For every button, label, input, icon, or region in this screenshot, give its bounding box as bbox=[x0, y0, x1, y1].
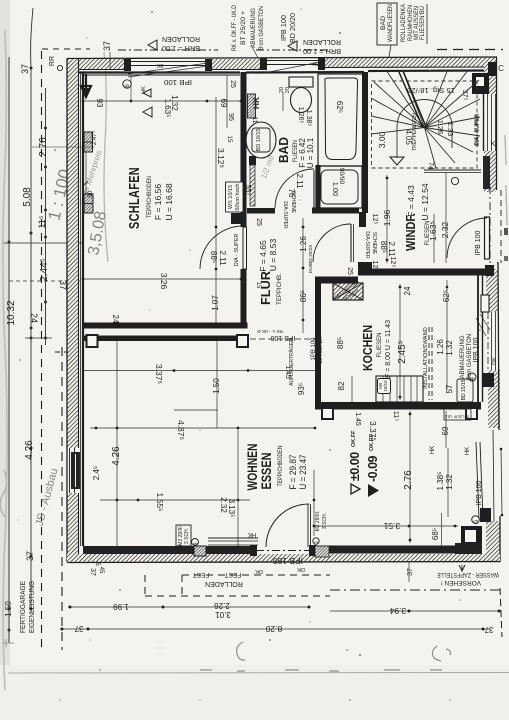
garage dashed top edge bbox=[42, 48, 90, 50]
top wall hatched band bbox=[67, 59, 126, 69]
wohnen window in left wall bbox=[69, 448, 71, 493]
svg-text:DK: DK bbox=[492, 357, 498, 365]
svg-text:F = 29.87: F = 29.87 bbox=[288, 455, 298, 490]
svg-text:5.08: 5.08 bbox=[22, 187, 33, 207]
svg-text:3.51: 3.51 bbox=[383, 521, 400, 531]
entrance door leaf bbox=[485, 217, 490, 259]
svg-text:2.32: 2.32 bbox=[440, 221, 450, 238]
wc bowl bbox=[291, 88, 312, 113]
svg-text:U = 16.68: U = 16.68 bbox=[164, 183, 174, 220]
svg-text:DK: DK bbox=[255, 568, 263, 574]
svg-text:50: 50 bbox=[88, 190, 94, 197]
scan speckle noise bbox=[151, 11, 153, 13]
top wall inner double line bbox=[67, 71, 240, 73]
wohnen dim line 1.55 bbox=[100, 499, 250, 501]
windf dim 2.32 bbox=[445, 172, 447, 263]
windf dim 1.63-5 bbox=[433, 214, 435, 263]
right wall pier black lower bbox=[480, 508, 491, 522]
entrance door swing arc bbox=[447, 218, 487, 258]
svg-text:ROLLADEN: ROLLADEN bbox=[303, 38, 341, 45]
schlafen window jambs bbox=[124, 59, 131, 71]
schlafen radiator 1 bbox=[84, 132, 93, 152]
terrace dashed outline bbox=[182, 574, 330, 576]
scan left edge pencil line bbox=[3, 30, 7, 690]
left margin dimension line C bbox=[45, 88, 47, 345]
svg-text:F = 16.56: F = 16.56 bbox=[153, 184, 163, 220]
svg-text:37: 37 bbox=[102, 41, 112, 51]
bad radiator HK bbox=[248, 94, 256, 118]
svg-text:86⁵: 86⁵ bbox=[299, 290, 308, 302]
svg-text:88⁵: 88⁵ bbox=[209, 251, 218, 263]
bad side wall strip bbox=[250, 165, 255, 206]
schlafen window dim line bbox=[83, 100, 241, 102]
wall V1 lower segment bbox=[241, 269, 247, 323]
svg-text:WS 10/15: WS 10/15 bbox=[228, 185, 234, 209]
margin connector dashes y=281 bbox=[9, 280, 80, 282]
svg-text:10/15: 10/15 bbox=[383, 380, 388, 392]
svg-text:TEPPICHB.: TEPPICHB. bbox=[277, 273, 283, 305]
svg-text:M2 28/III.: M2 28/III. bbox=[315, 511, 321, 532]
svg-text:SCHLAFEN: SCHLAFEN bbox=[126, 167, 143, 229]
scan right edge marks bbox=[505, 135, 507, 225]
bad window sill diagonals bbox=[264, 62, 320, 73]
wohnen dim line 3.51 bbox=[316, 525, 458, 527]
svg-text:SCHIENE: SCHIENE bbox=[290, 191, 296, 214]
rk box label kochen bottom bbox=[444, 409, 471, 420]
svg-text:95: 95 bbox=[227, 113, 234, 121]
svg-text:FERTIGGARAGE: FERTIGGARAGE bbox=[20, 581, 27, 633]
svg-text:55⁵: 55⁵ bbox=[244, 185, 251, 196]
svg-text:ROLLADEN: ROLLADEN bbox=[205, 580, 243, 587]
pencil mark bottom f bbox=[237, 642, 245, 660]
garage dashed outline left bbox=[41, 51, 43, 650]
right wall radiator upper bbox=[483, 156, 490, 189]
svg-text:BAD: BAD bbox=[276, 137, 291, 163]
margin connector y=243 bbox=[2, 242, 84, 244]
entrance door dash-dot centerline bbox=[489, 186, 491, 270]
svg-text:±0.00: ±0.00 bbox=[348, 452, 362, 481]
schlafen window sill diagonals bbox=[128, 63, 208, 74]
wc dim marks bbox=[282, 92, 284, 111]
stair landing edge bbox=[424, 169, 481, 171]
svg-text:RK v. - UK.D: RK v. - UK.D bbox=[257, 329, 283, 334]
garage dashed tick bbox=[55, 351, 70, 353]
bathtub inner bbox=[325, 78, 358, 160]
svg-text:62⁵: 62⁵ bbox=[442, 290, 451, 302]
svg-text:FEST: FEST bbox=[193, 571, 210, 578]
wohnen vertical dim right bbox=[237, 430, 239, 546]
svg-text:82: 82 bbox=[337, 381, 346, 390]
svg-text:2.47⁵: 2.47⁵ bbox=[91, 130, 98, 145]
svg-text:BD 15/15: BD 15/15 bbox=[461, 379, 467, 400]
svg-text:F = 8.00 U = 11.43: F = 8.00 U = 11.43 bbox=[383, 320, 392, 378]
bd 15/15 box bbox=[457, 379, 473, 402]
svg-text:1.07: 1.07 bbox=[211, 295, 220, 311]
kochen left wall bbox=[315, 277, 321, 403]
svg-text:G: G bbox=[314, 541, 320, 545]
bottom right corner block bbox=[461, 526, 482, 548]
stair walk line arrow bbox=[390, 157, 404, 165]
H2 jamb box right bbox=[237, 335, 248, 347]
svg-text:2.44⁵: 2.44⁵ bbox=[39, 258, 50, 282]
kochen right inner wall bbox=[477, 272, 479, 402]
svg-text:5 cm GASBETON: 5 cm GASBETON bbox=[259, 6, 265, 50]
svg-text:ROLLADEN: ROLLADEN bbox=[162, 35, 200, 42]
svg-text:2.26: 2.26 bbox=[214, 601, 230, 610]
svg-text:F = 4.43: F = 4.43 bbox=[406, 185, 416, 217]
svg-text:1.26: 1.26 bbox=[299, 236, 308, 252]
garage dashed outline right bbox=[61, 347, 63, 650]
chimney block top right bbox=[472, 73, 489, 94]
svg-text:62⁵: 62⁵ bbox=[335, 101, 344, 113]
rolladen triangle w2 bbox=[288, 41, 297, 51]
margin connector y=338 stub bbox=[25, 337, 52, 339]
svg-text:25: 25 bbox=[346, 267, 353, 275]
svg-text:1.33: 1.33 bbox=[446, 122, 455, 137]
svg-text:VORSEHEN !: VORSEHEN ! bbox=[441, 579, 481, 586]
svg-text:60cm hoch: 60cm hoch bbox=[235, 184, 241, 211]
schlafen window jamb line bbox=[130, 75, 132, 101]
scan bottom edge band bbox=[8, 672, 509, 675]
svg-text:ABMAUERUNG: ABMAUERUNG bbox=[251, 8, 257, 48]
schlafen window in top wall bbox=[126, 61, 211, 63]
windf circle symbol bbox=[451, 177, 458, 184]
schlafen door leaf on V1 bbox=[243, 227, 247, 269]
svg-text:93: 93 bbox=[95, 99, 104, 108]
installationswand dashed bbox=[428, 327, 430, 400]
kochen right wall step bbox=[481, 295, 489, 312]
bad wall pier black bbox=[249, 156, 256, 165]
dim 37 wasser bbox=[408, 562, 410, 582]
svg-text:12⁵: 12⁵ bbox=[389, 257, 396, 268]
svg-text:37: 37 bbox=[20, 64, 30, 74]
svg-text:DK: DK bbox=[312, 60, 320, 66]
schlafen radiator dim line bbox=[85, 152, 87, 194]
stair walk line arc bbox=[397, 100, 452, 159]
svg-text:BD 20/20: BD 20/20 bbox=[290, 13, 297, 43]
svg-text:OK.FF: OK.FF bbox=[351, 430, 357, 447]
rolladen triangle inner bbox=[143, 107, 152, 117]
kitchen hb box bbox=[378, 379, 391, 394]
svg-text:24: 24 bbox=[111, 315, 120, 324]
svg-text:2.32: 2.32 bbox=[219, 497, 228, 513]
svg-text:U = 8.53: U = 8.53 bbox=[268, 239, 278, 272]
circle 8 symbol bbox=[192, 539, 199, 546]
flur-windf door leaf bbox=[350, 224, 352, 262]
svg-text:HK: HK bbox=[465, 447, 471, 455]
left wall hatched band bbox=[68, 59, 79, 448]
pencil wavy line through schlafen bbox=[104, 52, 108, 262]
kochen dims 1.26 1.32 bbox=[446, 330, 448, 390]
svg-text:15: 15 bbox=[255, 282, 261, 289]
svg-text:15 Stg. 18⁷/26: 15 Stg. 18⁷/26 bbox=[407, 86, 455, 93]
left wall inner lines bbox=[78, 59, 80, 448]
triangle vent symbol bbox=[143, 89, 151, 97]
schlafen entrance arrow bbox=[81, 74, 91, 97]
svg-text:3.37⁵: 3.37⁵ bbox=[368, 421, 378, 441]
top dashed line right bbox=[437, 49, 503, 51]
svg-text:37: 37 bbox=[484, 625, 493, 634]
svg-text:1.32: 1.32 bbox=[445, 474, 454, 490]
terrace dash-dot right bbox=[330, 589, 500, 591]
svg-text:IPB 100: IPB 100 bbox=[473, 337, 480, 362]
svg-text:HK: HK bbox=[251, 96, 261, 109]
svg-text:1.55⁵: 1.55⁵ bbox=[155, 493, 164, 512]
kochen bottom wall bbox=[315, 402, 481, 410]
right dashed vertical bottom bbox=[500, 588, 502, 637]
wohnen window radiator bbox=[71, 452, 80, 489]
svg-text:3.01: 3.01 bbox=[215, 610, 231, 619]
svg-text:37: 37 bbox=[407, 568, 414, 576]
svg-text:AUFLAGERTRÄGER: AUFLAGERTRÄGER bbox=[288, 338, 295, 386]
right wall hatched band segments bbox=[484, 66, 496, 94]
svg-text:ESSEN: ESSEN bbox=[258, 453, 274, 490]
bathtub outer bbox=[318, 74, 364, 166]
svg-text:BRH = 1.00: BRH = 1.00 bbox=[303, 47, 341, 54]
svg-text:24: 24 bbox=[403, 286, 412, 295]
kochen bottom wall jamb left bbox=[322, 408, 333, 419]
fireplace box bbox=[194, 546, 206, 556]
pencil squiggle left edge bbox=[0, 470, 6, 518]
opening beam line flur-wohnen bbox=[250, 338, 316, 340]
svg-text:1.99: 1.99 bbox=[113, 602, 129, 611]
boiler crossed box bbox=[333, 283, 363, 300]
svg-text:IPB 100: IPB 100 bbox=[475, 230, 482, 255]
ipb leader lines bbox=[476, 318, 486, 336]
bench strip lines bbox=[208, 537, 258, 539]
svg-text:U = 12.54: U = 12.54 bbox=[420, 183, 430, 220]
wall schlafen-bad V1 upper bbox=[241, 72, 247, 227]
svg-text:1.26: 1.26 bbox=[436, 120, 445, 135]
washbasin inner box bbox=[252, 128, 270, 152]
svg-text:8: 8 bbox=[194, 542, 200, 545]
bad window rolladen dash-dot bbox=[256, 49, 330, 51]
kochen bottom wall jamb right bbox=[466, 408, 477, 419]
bad door leaf bbox=[313, 170, 315, 208]
circle terrace bbox=[313, 538, 319, 544]
svg-text:4.26: 4.26 bbox=[24, 440, 35, 460]
margin ticks and dots bbox=[30, 67, 33, 70]
flur vertical dim 1.26 86-5 bbox=[302, 218, 304, 333]
right wall top corner block bbox=[488, 62, 497, 76]
svg-text:3 SCH.: 3 SCH. bbox=[322, 513, 328, 529]
svg-text:ROLLADENKA: ROLLADENKA bbox=[401, 4, 407, 42]
top wall outer edge bbox=[67, 57, 497, 59]
svg-text:4.26: 4.26 bbox=[111, 446, 122, 466]
svg-text:37: 37 bbox=[89, 568, 96, 576]
bad door swing arc bbox=[275, 169, 314, 208]
svg-text:HK: HK bbox=[430, 446, 436, 454]
svg-text:1.38⁵: 1.38⁵ bbox=[305, 110, 312, 127]
wall H2 wohnen top bbox=[83, 336, 249, 342]
level mark 0.00 bbox=[348, 430, 362, 494]
svg-text:12⁵: 12⁵ bbox=[371, 261, 378, 272]
kochen dim 2.45-5 bbox=[399, 284, 401, 400]
svg-text:3.94: 3.94 bbox=[389, 606, 406, 616]
rolladen triangle w1 bbox=[148, 40, 157, 50]
gas meter circle G bbox=[468, 373, 476, 381]
svg-text:DIA - SUPER: DIA - SUPER bbox=[234, 234, 240, 267]
svg-text:1.38⁵: 1.38⁵ bbox=[436, 472, 445, 491]
wohnen dim 1.50 vertical bbox=[216, 341, 218, 428]
svg-text:EIGENLEISTUNG: EIGENLEISTUNG bbox=[29, 581, 36, 633]
svg-text:1.50: 1.50 bbox=[212, 378, 221, 394]
wohnen dim 2.76 bbox=[409, 411, 411, 543]
svg-text:1.32: 1.32 bbox=[445, 340, 454, 356]
svg-text:2.76: 2.76 bbox=[403, 470, 414, 490]
entrance outside dashed bbox=[500, 190, 502, 263]
svg-text:37: 37 bbox=[25, 551, 35, 561]
schlafen radiator 2 bbox=[84, 194, 93, 213]
shower enclosure bbox=[316, 166, 362, 208]
svg-text:DIA - SUPER: DIA - SUPER bbox=[474, 114, 480, 145]
bottom wall inner dark band bbox=[83, 546, 250, 554]
right wall window W1 bbox=[483, 94, 485, 151]
bottom dim line 1 bbox=[68, 606, 309, 608]
svg-text:IPB 100: IPB 100 bbox=[164, 78, 192, 85]
svg-text:2.11: 2.11 bbox=[218, 251, 227, 267]
leader line top margin bbox=[251, 45, 258, 58]
svg-text:BD 10/15: BD 10/15 bbox=[256, 129, 262, 152]
wohnen dim 68-5 bbox=[441, 513, 443, 546]
svg-text:INSTALLATIONSWAND: INSTALLATIONSWAND bbox=[423, 327, 429, 389]
level mark -0.09 bbox=[366, 433, 380, 497]
circle 6 symbol bbox=[123, 80, 131, 88]
svg-text:WASSER - ZAPFSTELLE: WASSER - ZAPFSTELLE bbox=[436, 571, 499, 578]
svg-text:25: 25 bbox=[229, 80, 236, 88]
stair cut double line bbox=[399, 72, 423, 128]
wall stub below bad wall bbox=[359, 212, 366, 227]
svg-text:ABMAUERUNG: ABMAUERUNG bbox=[460, 335, 466, 378]
svg-text:2.4⁵: 2.4⁵ bbox=[92, 466, 101, 480]
bad window jambs bbox=[260, 58, 267, 70]
svg-text:DK: DK bbox=[297, 566, 305, 572]
svg-text:1.32: 1.32 bbox=[170, 95, 179, 111]
svg-text:20: 20 bbox=[285, 87, 291, 93]
terrace door swing arc bbox=[266, 504, 309, 547]
wall V3 bad-stairs bbox=[362, 72, 368, 213]
schlafen door swing arc bbox=[200, 226, 243, 269]
bottom wall outer edge bbox=[67, 562, 500, 563]
wall H1 schlafen bottom bbox=[83, 323, 248, 329]
left wall outer edge bbox=[66, 59, 68, 563]
bad window in top wall bbox=[262, 60, 324, 62]
svg-text:C: C bbox=[498, 64, 504, 73]
svg-text:DIA-SUPER: DIA-SUPER bbox=[364, 231, 370, 259]
svg-text:RR: RR bbox=[49, 56, 56, 66]
wc cistern bbox=[289, 77, 313, 87]
svg-text:DK: DK bbox=[156, 62, 164, 68]
ws 10/15 pier box label bbox=[226, 182, 244, 212]
svg-text:69: 69 bbox=[441, 426, 450, 435]
wohnen right window outer lines bbox=[493, 430, 494, 521]
svg-text:BT 25/20 +: BT 25/20 + bbox=[241, 10, 247, 45]
svg-text:BRH = 1.00: BRH = 1.00 bbox=[162, 44, 200, 51]
bottom wall corner fill right bbox=[455, 543, 482, 554]
svg-text:3 SCH.: 3 SCH. bbox=[184, 528, 190, 544]
H2 jamb box left bbox=[87, 335, 98, 347]
svg-text:DIA-SUPER: DIA-SUPER bbox=[282, 201, 288, 229]
svg-text:37⁵: 37⁵ bbox=[461, 90, 468, 101]
svg-text:1.50: 1.50 bbox=[4, 601, 13, 617]
svg-text:12⁵: 12⁵ bbox=[371, 214, 378, 225]
svg-text:3.00: 3.00 bbox=[377, 131, 387, 148]
svg-text:2.45⁵: 2.45⁵ bbox=[397, 340, 408, 364]
svg-text:U = 10.1: U = 10.1 bbox=[306, 137, 315, 168]
wohnen dim line 4.87 bbox=[90, 427, 316, 429]
svg-text:1.26: 1.26 bbox=[436, 339, 445, 355]
svg-text:TEPPICHBODEN: TEPPICHBODEN bbox=[278, 446, 284, 487]
right wall outer edge bbox=[497, 57, 501, 562]
svg-text:TREPPENLOCH: TREPPENLOCH bbox=[412, 113, 418, 151]
svg-text:RK v. OK.FF - UK.D: RK v. OK.FF - UK.D bbox=[445, 414, 469, 419]
svg-text:DU/BD 20/20: DU/BD 20/20 bbox=[308, 245, 314, 274]
svg-text:45: 45 bbox=[98, 567, 104, 574]
left margin dimension line B bbox=[31, 8, 33, 612]
svg-text:RK v. OK.FF - UK.D: RK v. OK.FF - UK.D bbox=[232, 4, 238, 51]
svg-text:IPB 180: IPB 180 bbox=[272, 556, 303, 565]
svg-text:88⁵: 88⁵ bbox=[336, 337, 345, 349]
kitchen counter bbox=[376, 376, 423, 402]
svg-text:IPB 100: IPB 100 bbox=[476, 480, 483, 505]
left margin dimension line A (outermost) bbox=[8, 57, 10, 643]
svg-text:SCHIENE: SCHIENE bbox=[371, 232, 377, 255]
svg-text:1.63⁵: 1.63⁵ bbox=[428, 221, 438, 241]
svg-text:10.32: 10.32 bbox=[6, 300, 17, 325]
right wall window W2 bbox=[491, 312, 493, 370]
svg-text:HK: HK bbox=[248, 531, 256, 537]
svg-text:IPB 100: IPB 100 bbox=[281, 15, 288, 41]
shower inner bbox=[321, 170, 358, 204]
svg-text:24: 24 bbox=[29, 313, 39, 323]
bottom dim line 3.94 bbox=[330, 610, 499, 612]
schlafen dim line 3.26 bbox=[83, 278, 241, 280]
bottom dim line 2 bbox=[60, 628, 490, 630]
bad bottom wall bbox=[247, 208, 275, 214]
svg-text:2.11: 2.11 bbox=[387, 242, 396, 258]
svg-text:8.20: 8.20 bbox=[265, 624, 282, 634]
bottom wall hatched band bbox=[67, 554, 500, 563]
svg-text:93⁵: 93⁵ bbox=[297, 383, 306, 395]
stair fan treads bbox=[371, 128, 425, 135]
svg-text:68⁵: 68⁵ bbox=[431, 528, 440, 540]
terrace door right jamb dark block bbox=[315, 546, 329, 557]
svg-text:1.45: 1.45 bbox=[354, 412, 361, 426]
wohnen vertical dim 4.26 bbox=[116, 341, 118, 546]
svg-text:U = 23.47: U = 23.47 bbox=[298, 455, 308, 490]
bad wandfliesen box bbox=[377, 3, 397, 45]
svg-text:F = 4.65: F = 4.65 bbox=[258, 240, 268, 272]
svg-text:1.00: 1.00 bbox=[331, 182, 340, 197]
wohnen window right glazing bbox=[476, 442, 479, 519]
wohnen dims 1.38 1.32 bbox=[447, 448, 449, 517]
gas circle lower bbox=[472, 516, 480, 524]
kochen top wall right part bbox=[358, 269, 489, 276]
svg-text:2.11: 2.11 bbox=[295, 174, 304, 190]
wohnen right window dim line bbox=[501, 448, 502, 516]
ws pier black square bbox=[231, 213, 242, 224]
svg-text:WINDF.: WINDF. bbox=[403, 213, 418, 251]
wall corner piece windf-kochen bbox=[358, 262, 372, 270]
stair dashed boundary bbox=[372, 81, 478, 168]
svg-text:74: 74 bbox=[427, 162, 434, 170]
svg-text:K: K bbox=[491, 141, 496, 148]
schlafen vertical dim 1.07 bbox=[215, 97, 217, 325]
svg-text:3.26: 3.26 bbox=[159, 273, 169, 290]
svg-text:KOCHEN: KOCHEN bbox=[361, 325, 375, 371]
svg-text:FEST: FEST bbox=[225, 571, 242, 578]
svg-text:25: 25 bbox=[255, 218, 262, 226]
